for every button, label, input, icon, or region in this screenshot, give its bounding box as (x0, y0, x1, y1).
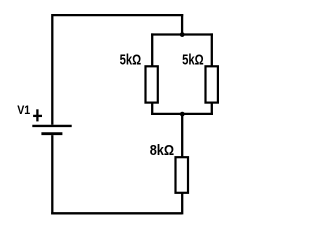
resistor R1 5k left: box (146, 66, 158, 102)
resistor R2 5k right: box (206, 66, 218, 102)
wire: bottom rail of parallel resistors (151, 113, 213, 115)
wire: bottom horizontal from bottom-left corner to below 8k resistor (51, 212, 182, 214)
wire: middle vertical from bottom junction into 8k resistor (181, 114, 183, 157)
wire: right vertical from top wire down to top junction node (181, 14, 183, 35)
resistor R3 8k: box (176, 157, 189, 193)
wire: top rail of parallel resistors (151, 33, 213, 35)
svg-text:V1: V1 (17, 103, 30, 117)
wire: left vertical from battery - plate down to bottom corner (51, 135, 53, 214)
wire: left branch vertical out of left 5k resistor (151, 103, 153, 115)
wire: vertical from 8k resistor bottom to bottom wire (181, 193, 183, 215)
node: top junction dot (180, 32, 185, 37)
battery V1: positive long plate (32, 125, 71, 127)
svg-text:5kΩ: 5kΩ (120, 53, 142, 69)
wire: left branch vertical into left 5k resistor (151, 33, 153, 66)
wire: right branch vertical into right 5k resistor (211, 33, 213, 66)
wire: top horizontal from battery top to right corner (52, 14, 183, 16)
battery V1: negative short plate (41, 132, 62, 135)
node: bottom junction dot (180, 112, 185, 117)
svg-text:8kΩ: 8kΩ (150, 143, 174, 159)
wire: left vertical from top corner down to battery + plate (51, 14, 53, 125)
svg-text:5kΩ: 5kΩ (182, 53, 204, 69)
battery V1: plus sign (33, 115, 42, 117)
wire: right branch vertical out of right 5k resistor (211, 103, 213, 115)
